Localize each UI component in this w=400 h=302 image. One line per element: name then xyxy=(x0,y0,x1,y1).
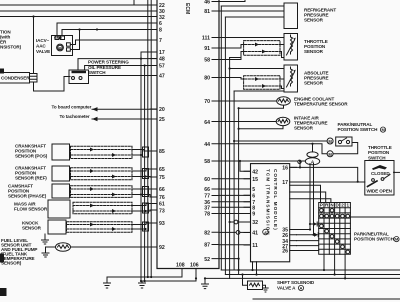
svg-text:81: 81 xyxy=(204,9,210,15)
wire pin 80 to cable xyxy=(219,78,245,80)
svg-text:75: 75 xyxy=(159,175,165,181)
wire absolute bottom to bus V4 xyxy=(234,89,284,92)
wire A down to pin26 junction xyxy=(312,164,314,236)
wire throttle bottom to bus V3 xyxy=(230,57,241,59)
wire ignition line to pin 30 xyxy=(0,10,157,12)
TCM pin number labels xyxy=(252,170,258,250)
svg-text:25: 25 xyxy=(159,117,165,123)
connector M2 xyxy=(327,151,333,157)
wire cable to absolute wiper xyxy=(280,78,284,80)
connector M1 xyxy=(327,138,333,144)
wire TCM35 xyxy=(297,229,311,231)
svg-text:5: 5 xyxy=(252,187,255,193)
svg-text:M: M xyxy=(328,152,332,157)
power steering oil pressure switch S1 box xyxy=(69,70,89,84)
svg-text:80: 80 xyxy=(204,76,210,82)
svg-text:48: 48 xyxy=(159,57,165,63)
svg-text:66: 66 xyxy=(159,187,165,193)
svg-text:57: 57 xyxy=(159,64,165,70)
junction pin17-48 xyxy=(140,58,142,60)
knock sensor box xyxy=(48,220,66,234)
svg-text:9: 9 xyxy=(252,212,255,218)
svg-text:1: 1 xyxy=(347,203,350,208)
wire bus to solenoid xyxy=(241,273,247,285)
wire pin 17 stub xyxy=(141,52,157,59)
shielded cable knock xyxy=(67,222,133,232)
wire POS signal to pin 85 xyxy=(132,150,157,152)
wire ECM82-TCM41 connector xyxy=(219,231,251,235)
svg-text:32: 32 xyxy=(159,15,165,21)
svg-text:CONDENSER: CONDENSER xyxy=(1,76,30,81)
wire M2 to MT switch xyxy=(333,143,358,154)
wire pin 70 to ECT xyxy=(219,100,277,102)
svg-text:42: 42 xyxy=(252,170,258,176)
switch contacts xyxy=(72,71,87,80)
cable POS arrowheads xyxy=(90,148,116,158)
throttle switch closed flag xyxy=(372,165,387,170)
wire to board computer pin 20 xyxy=(92,107,157,111)
svg-text:8: 8 xyxy=(252,206,255,212)
svg-text:A: A xyxy=(264,230,267,235)
wire ECM77-TCM6 xyxy=(219,194,251,196)
wire pin 48 to switch xyxy=(78,59,157,70)
svg-text:11: 11 xyxy=(252,243,258,249)
absolute pressure sensor box xyxy=(284,65,298,92)
svg-text:2: 2 xyxy=(341,203,344,208)
wire ECM78-TCM9 xyxy=(219,213,251,215)
wire MAF signal to pin 61 xyxy=(132,204,157,206)
wire pin 44 to connector M2 xyxy=(219,144,327,154)
refrigerant pressure sensor box xyxy=(284,3,298,29)
svg-text:ECM: ECM xyxy=(184,3,190,14)
crankshaft position sensor POS box xyxy=(52,144,70,160)
svg-text:AAC: AAC xyxy=(36,44,46,49)
svg-text:64: 64 xyxy=(204,120,210,126)
wire throttle switch out right xyxy=(393,171,400,173)
svg-text:61: 61 xyxy=(159,202,165,208)
ground G2 xyxy=(139,283,146,288)
wire ECT return to bus V5 xyxy=(238,105,284,109)
wire TCM27 to grid xyxy=(297,245,319,247)
wire A down to pin35 junction xyxy=(309,164,311,231)
ECM right pin ticks xyxy=(212,2,219,259)
knock sensor ground xyxy=(42,234,49,244)
svg-text:15: 15 xyxy=(252,177,258,183)
scan artifact marks xyxy=(0,69,7,297)
inline connector MAF xyxy=(143,203,149,213)
wire TCM32 connector xyxy=(229,220,251,224)
ECM U1 box xyxy=(157,0,219,269)
svg-text:76: 76 xyxy=(159,195,165,201)
wire stub from top edge xyxy=(133,0,135,5)
shielded cable MAF xyxy=(73,202,132,213)
TCM box xyxy=(251,164,290,262)
svg-text:POWER STEERING: POWER STEERING xyxy=(88,60,129,65)
cable REF arrowheads xyxy=(90,169,116,179)
svg-text:POSITION SWITCH: POSITION SWITCH xyxy=(354,237,395,242)
wire TCM42 to bus xyxy=(239,160,251,171)
solenoid ground xyxy=(263,285,269,292)
svg-text:FLOW SENSOR: FLOW SENSOR xyxy=(14,207,48,212)
wire knock signal to pin 93 xyxy=(132,223,157,225)
shielded cable REF xyxy=(71,168,133,180)
throttle position switch box xyxy=(365,161,394,196)
wire TCM26 xyxy=(297,234,314,236)
wire absolute top from bus V3 xyxy=(229,67,285,69)
svg-text:65: 65 xyxy=(159,167,165,173)
svg-text:M: M xyxy=(328,139,332,144)
wire TCM right aux 2 to grid top xyxy=(290,192,326,203)
svg-text:SWITCH: SWITCH xyxy=(368,155,386,160)
cable knock arrowheads xyxy=(90,223,116,232)
wire refrig 2 from pin 81 xyxy=(219,10,284,12)
svg-text:CLOSED: CLOSED xyxy=(371,171,390,176)
svg-text:6: 6 xyxy=(252,194,255,200)
cable throttle arrowheads xyxy=(255,43,266,54)
svg-text:6: 6 xyxy=(159,21,162,27)
svg-text:20: 20 xyxy=(159,107,165,113)
svg-text:TEMPERATURE SENSOR: TEMPERATURE SENSOR xyxy=(294,102,348,107)
TCM circled A xyxy=(263,229,269,235)
wire refrig 1 from bus V1 xyxy=(221,5,284,7)
svg-text:37: 37 xyxy=(204,206,210,212)
wire condenser down to PS switch xyxy=(34,77,71,92)
svg-text:73: 73 xyxy=(159,209,165,215)
shielded cable POS xyxy=(71,146,133,158)
bus vertical V4 xyxy=(233,91,235,270)
wire ECM36-TCM7 xyxy=(219,201,251,203)
svg-text:87: 87 xyxy=(204,243,210,249)
svg-text:VALVE A: VALVE A xyxy=(277,286,296,291)
junction pin 106 wire xyxy=(195,277,197,279)
ECM left pin ticks xyxy=(150,5,157,247)
wire pin 91 to cable xyxy=(219,45,245,49)
svg-text:To tachometer: To tachometer xyxy=(60,114,90,119)
wire ECM66-TCM5 xyxy=(219,188,251,190)
bottom bus line 3 xyxy=(205,277,400,279)
svg-text:SENSOR: SENSOR xyxy=(294,126,314,131)
svg-text:32: 32 xyxy=(252,220,258,226)
wire pin 8 to IACV terminal xyxy=(62,30,157,37)
grid contact circles xyxy=(320,209,350,254)
svg-text:26: 26 xyxy=(282,249,288,255)
wire TCM pin16 tap to A xyxy=(290,160,358,182)
svg-text:52: 52 xyxy=(204,257,210,263)
wire pin 47 to switch right xyxy=(89,75,158,77)
wire grid common out right xyxy=(350,216,400,218)
wire grid col down 1 xyxy=(323,254,325,271)
svg-text:78: 78 xyxy=(204,212,210,218)
wire ECM37-TCM8 xyxy=(219,206,251,208)
wire to tachometer pin 25 xyxy=(92,117,157,121)
connector circle on A feed wire xyxy=(298,160,301,163)
wire branch to IACV right terminal 1 xyxy=(71,30,80,50)
TCM vertical label xyxy=(266,169,279,236)
svg-text:SENSOR: SENSOR xyxy=(304,81,324,86)
svg-text:16: 16 xyxy=(282,166,288,172)
junction dot on pin17 wire xyxy=(357,181,359,183)
svg-text:SENSOR: SENSOR xyxy=(304,49,324,54)
svg-text:111: 111 xyxy=(202,36,210,42)
TCM left pin ticks xyxy=(244,171,251,245)
svg-text:VALVE: VALVE xyxy=(36,49,50,54)
intake air temperature sensor xyxy=(276,117,290,125)
junction bus W1 bottom xyxy=(140,276,152,282)
wire IAT return to bus V5 xyxy=(238,126,284,130)
junction on pin8 wire xyxy=(78,28,98,30)
svg-text:A: A xyxy=(300,286,303,291)
wire pin 7 to IACV right terminal 2 xyxy=(71,40,158,45)
svg-text:POSITION SWITCH: POSITION SWITCH xyxy=(338,127,379,132)
wire TCM34 to grid xyxy=(297,240,319,242)
wire ignition line to pin 22 xyxy=(0,4,157,6)
wire IAT feed from bus V4 xyxy=(219,121,276,123)
IACV top terminals xyxy=(55,36,65,40)
wire pin 52 down xyxy=(219,258,240,272)
inline connector PHASE xyxy=(143,187,149,197)
wire cable to throttle wiper xyxy=(280,44,284,46)
condenser C1 box xyxy=(30,74,38,83)
svg-text:SENSOR: SENSOR xyxy=(22,226,42,231)
svg-text:SENSOR: SENSOR xyxy=(304,18,324,23)
wire TCM bottom stub 2 xyxy=(255,262,257,276)
bottom wire pin 108 to ground xyxy=(107,269,182,284)
wire fuel sensor to pin 92 xyxy=(71,246,158,248)
wire REF return to pin 75 xyxy=(132,175,157,177)
bus wire W3 from top edge xyxy=(147,0,149,277)
svg-text:106: 106 xyxy=(190,263,199,269)
wire PHASE return to pin 76 xyxy=(132,193,157,197)
svg-text:IACV–: IACV– xyxy=(36,38,50,43)
svg-text:92: 92 xyxy=(159,245,165,251)
park/neutral switch MT box xyxy=(336,137,352,146)
cable absolute arrowheads xyxy=(255,77,266,88)
park/neutral matrix grid xyxy=(319,203,351,255)
ECM pin number labels right xyxy=(202,0,210,263)
ground G3 xyxy=(202,277,209,288)
throttle position sensor box xyxy=(284,34,298,61)
wire pin44 tap through connector A xyxy=(311,143,313,152)
svg-text:108: 108 xyxy=(176,263,185,269)
ECM bottom pin labels 108 106 xyxy=(176,263,199,269)
bus wire W4 from top edge xyxy=(150,0,152,277)
shielded cable absolute xyxy=(244,76,280,89)
wire TCM pin 17 to throttle switch xyxy=(290,181,365,183)
absolute pot xyxy=(287,67,296,87)
wire ignition line to pin 32 xyxy=(0,16,157,18)
throttle pot xyxy=(287,35,296,55)
diode D1 xyxy=(310,222,319,226)
inline connector REF xyxy=(143,169,149,179)
TCM right pin ticks xyxy=(290,167,297,250)
svg-text:66: 66 xyxy=(204,187,210,193)
wire MAF return to pin 73 xyxy=(132,210,157,212)
svg-text:17: 17 xyxy=(282,180,288,186)
cable PHASE arrowheads xyxy=(90,187,116,197)
svg-text:SHIFT SOLENOID: SHIFT SOLENOID xyxy=(277,280,315,285)
wire cable to throttle bottom xyxy=(280,52,284,58)
shielded cable throttle xyxy=(244,41,280,56)
svg-text:47: 47 xyxy=(159,74,165,80)
shift solenoid valve A coil xyxy=(248,281,263,290)
wire pin 46 top xyxy=(219,0,245,2)
wire refrig 3 from bus V2 xyxy=(225,16,284,18)
bus vertical V3 xyxy=(229,58,231,279)
mass air flow sensor box xyxy=(48,200,70,218)
svg-text:8: 8 xyxy=(159,28,162,34)
svg-text:60: 60 xyxy=(204,177,210,183)
wire pin 57 to switch xyxy=(85,64,157,70)
svg-text:70: 70 xyxy=(204,99,210,105)
svg-text:CONTROL MODULE): CONTROL MODULE) xyxy=(273,169,278,231)
wire TCM right aux 1 to grid top xyxy=(290,185,321,202)
wire ECM60-TCM15 xyxy=(219,178,251,180)
svg-text:93: 93 xyxy=(159,221,165,227)
bottom edge line xyxy=(253,298,400,300)
svg-text:To board computer: To board computer xyxy=(52,105,92,110)
diode D2 xyxy=(314,233,319,237)
ground G1 xyxy=(104,283,111,288)
svg-text:17: 17 xyxy=(159,50,165,56)
wire grid col down 3 xyxy=(344,254,346,279)
svg-text:58: 58 xyxy=(204,58,210,64)
grid header letters xyxy=(320,203,350,208)
svg-text:7: 7 xyxy=(159,38,162,44)
wire bus V4 to connector M1 xyxy=(233,140,327,142)
bus vertical V1 xyxy=(220,6,222,270)
IACV motor symbol M xyxy=(57,44,64,51)
wire grid col down 2 xyxy=(334,254,336,275)
svg-text:SWITCH: SWITCH xyxy=(88,70,106,75)
crankshaft position sensor REF box xyxy=(52,166,70,181)
svg-text:46: 46 xyxy=(204,0,210,6)
svg-text:91: 91 xyxy=(204,46,210,52)
svg-text:82: 82 xyxy=(204,231,210,237)
bottom bus line 2 xyxy=(225,274,400,276)
wire pin 111 to throttle top xyxy=(219,37,284,39)
wire pin 58 to cable xyxy=(219,52,245,60)
svg-text:P: P xyxy=(320,203,323,208)
junction condenser tap xyxy=(32,15,34,17)
svg-text:TCM (TRANSMISSION: TCM (TRANSMISSION xyxy=(266,169,271,236)
bottom wire pin 106 to ground xyxy=(142,269,196,284)
svg-text:GND: GND xyxy=(54,36,62,40)
svg-text:85: 85 xyxy=(159,149,165,155)
IACV right terminals xyxy=(67,43,71,51)
svg-text:58: 58 xyxy=(204,159,210,165)
condenser label frame xyxy=(0,73,30,84)
bus wire W1 down from pin17-48 junction xyxy=(140,59,142,281)
bus vertical V5 xyxy=(238,108,240,274)
inline connector POS xyxy=(143,147,149,157)
wire TCM right aux 3 to grid top xyxy=(290,199,331,203)
wire cable low to absolute bottom xyxy=(280,86,284,89)
bus vertical V2 xyxy=(224,17,226,275)
svg-text:SENSOR (REF): SENSOR (REF) xyxy=(15,176,47,181)
throttle switch contacts xyxy=(368,175,391,187)
wire TCM26b to grid xyxy=(297,250,319,252)
wire TCM bottom stub 1 xyxy=(251,262,253,271)
wire pin 6 to IACV gnd terminal xyxy=(57,23,157,36)
svg-text:SENSOR (PHASE): SENSOR (PHASE) xyxy=(8,194,47,199)
svg-text:WIDE OPEN: WIDE OPEN xyxy=(367,189,393,194)
fuel tank temperature sensor thermistor xyxy=(56,243,71,252)
svg-text:SENSOR (POS): SENSOR (POS) xyxy=(15,154,48,159)
cable MAF arrowheads xyxy=(90,204,116,214)
inline connector KNOCK xyxy=(143,222,149,231)
circled symbol rings xyxy=(298,127,399,291)
bottom bus line 1 xyxy=(221,269,400,271)
svg-text:41: 41 xyxy=(252,231,258,237)
svg-text:44: 44 xyxy=(204,142,210,148)
svg-text:77: 77 xyxy=(204,194,210,200)
condenser C1 vertical feed wire xyxy=(33,17,35,74)
junction A ellipse xyxy=(305,152,319,165)
wire knock shield to bus xyxy=(132,228,147,230)
wire PHASE signal to pin 66 xyxy=(132,188,157,190)
svg-text:SENSOR): SENSOR) xyxy=(1,261,22,266)
svg-text:NSISTOR): NSISTOR) xyxy=(0,45,22,50)
camshaft position sensor PHASE box xyxy=(52,184,70,198)
wire pin 58 to junction A xyxy=(219,160,305,162)
wire POS shield to bus xyxy=(132,154,142,156)
fuel sensor left ground xyxy=(42,247,56,257)
wire ECM87-TCM11 xyxy=(219,244,251,246)
IACV-AAC valve box xyxy=(52,36,73,56)
svg-text:M: M xyxy=(59,46,62,50)
shielded cable PHASE xyxy=(71,186,133,198)
ECM pin number labels left xyxy=(159,3,165,251)
bus wire W2 down from pin 57 junction xyxy=(144,66,146,282)
engine coolant temperature sensor xyxy=(277,97,291,105)
wire REF signal to pin 65 xyxy=(132,169,157,171)
